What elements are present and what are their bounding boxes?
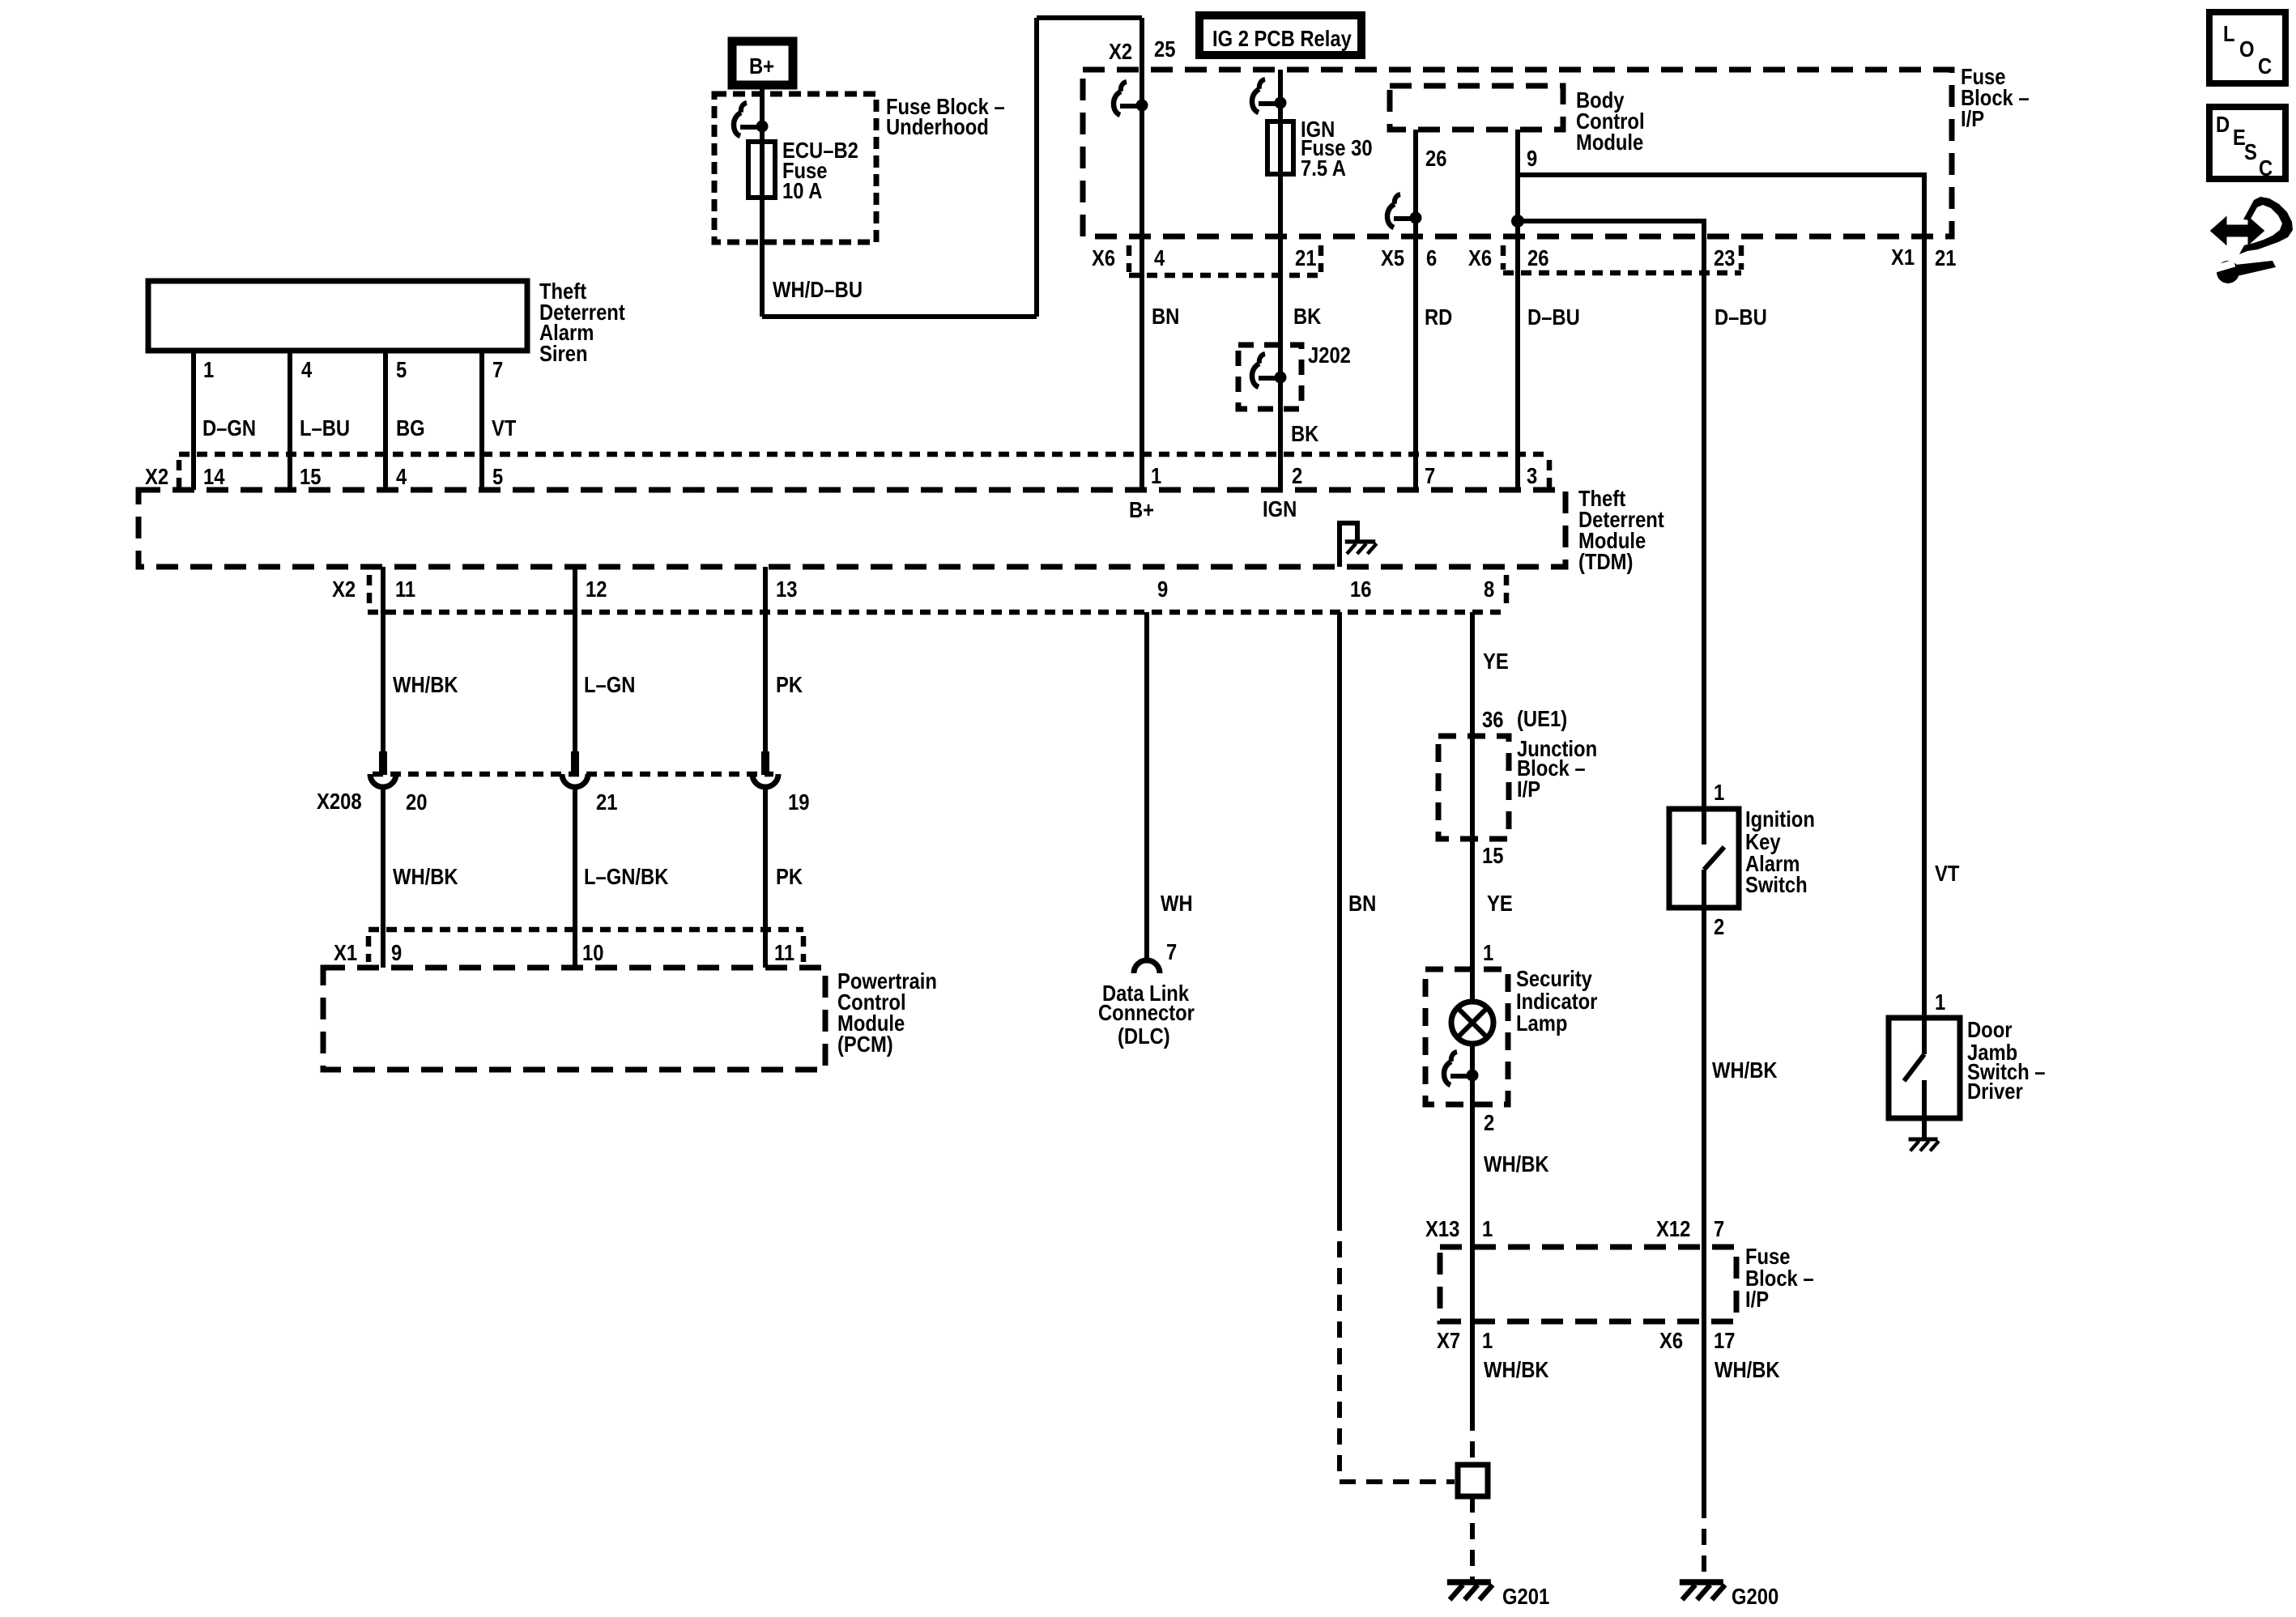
svg-text:(PCM): (PCM) bbox=[837, 1031, 893, 1057]
connector X2 dotted line on TDM bottom bbox=[368, 610, 1506, 615]
svg-text:X208: X208 bbox=[317, 788, 362, 814]
junction block I/P dashed box bbox=[1438, 736, 1509, 839]
svg-text:WH/BK: WH/BK bbox=[1484, 1356, 1549, 1382]
svg-text:L–GN/BK: L–GN/BK bbox=[584, 863, 669, 889]
svg-text:L–GN: L–GN bbox=[584, 671, 635, 697]
wire riser to top bbox=[1034, 18, 1039, 317]
wire switch to fuse block WH/BK bbox=[1702, 908, 1706, 1321]
svg-text:26: 26 bbox=[1425, 145, 1446, 171]
svg-text:12: 12 bbox=[586, 576, 607, 602]
wire D-BU down to TDM pin3 bbox=[1515, 221, 1520, 490]
svg-text:7: 7 bbox=[492, 356, 503, 382]
svg-text:VT: VT bbox=[492, 415, 517, 440]
lamp symbol circle with X bbox=[1451, 1002, 1493, 1044]
wire X208-19 to PCM bbox=[763, 787, 768, 968]
wire BN to TDM pin1 bbox=[1139, 236, 1144, 490]
powertrain control module PCM dashed box bbox=[323, 968, 825, 1070]
wire lamp to fuse block WH/BK bbox=[1470, 1104, 1475, 1321]
svg-text:X1: X1 bbox=[1891, 244, 1915, 270]
wire BCM pin26 down bbox=[1413, 130, 1418, 490]
svg-text:WH/BK: WH/BK bbox=[1715, 1356, 1780, 1382]
svg-text:5: 5 bbox=[396, 356, 407, 382]
siren wire pin7 bbox=[479, 351, 484, 490]
wire BN dashed to splice bbox=[1340, 1215, 1455, 1482]
svg-text:RD: RD bbox=[1425, 304, 1452, 330]
svg-text:D–GN: D–GN bbox=[202, 415, 256, 440]
svg-text:13: 13 bbox=[776, 576, 797, 602]
svg-text:1: 1 bbox=[203, 356, 214, 382]
wire TDM pin16 BN down bbox=[1337, 612, 1342, 1215]
svg-text:5: 5 bbox=[492, 463, 503, 489]
junction dot pin9 branch bbox=[1511, 215, 1524, 228]
svg-text:IG 2 PCB Relay: IG 2 PCB Relay bbox=[1212, 25, 1352, 51]
svg-text:G201: G201 bbox=[1502, 1583, 1549, 1609]
svg-text:15: 15 bbox=[1482, 842, 1503, 868]
fuse block I/P lower dashed box bbox=[1440, 1247, 1736, 1321]
svg-text:21: 21 bbox=[1295, 245, 1316, 270]
svg-text:(TDM): (TDM) bbox=[1578, 548, 1633, 574]
svg-text:G200: G200 bbox=[1732, 1583, 1778, 1609]
svg-text:BN: BN bbox=[1348, 890, 1376, 916]
wire below X7 solid bbox=[1470, 1321, 1475, 1415]
wire TDM pin8 YE down bbox=[1470, 612, 1475, 969]
svg-text:WH/D–BU: WH/D–BU bbox=[773, 276, 863, 302]
svg-text:11: 11 bbox=[395, 576, 415, 602]
svg-text:7.5 A: 7.5 A bbox=[1301, 155, 1346, 181]
svg-text:X2: X2 bbox=[332, 576, 356, 602]
svg-text:7: 7 bbox=[1166, 938, 1177, 964]
siren wire pin5 bbox=[383, 351, 388, 490]
wire X208-20 to PCM bbox=[381, 787, 386, 968]
svg-text:B+: B+ bbox=[749, 53, 774, 79]
connector X6 BCM ticks and line bbox=[1501, 245, 1506, 270]
svg-text:Underhood: Underhood bbox=[886, 113, 989, 139]
svg-text:X6: X6 bbox=[1659, 1327, 1683, 1353]
svg-text:PK: PK bbox=[776, 863, 803, 889]
svg-text:1: 1 bbox=[1482, 1215, 1493, 1241]
fuse IGN 30 bbox=[1267, 121, 1293, 174]
svg-text:Connector: Connector bbox=[1098, 999, 1195, 1025]
svg-text:15: 15 bbox=[300, 463, 321, 489]
svg-text:IGN: IGN bbox=[1263, 496, 1297, 521]
wire B+ feed vertical through fuse bbox=[760, 89, 765, 317]
svg-text:WH/BK: WH/BK bbox=[393, 671, 458, 697]
svg-text:YE: YE bbox=[1483, 648, 1509, 674]
svg-text:X1: X1 bbox=[334, 939, 357, 965]
svg-text:1: 1 bbox=[1483, 939, 1493, 965]
wire TDM pin12 L-GN bbox=[573, 567, 577, 752]
svg-text:B+: B+ bbox=[1129, 496, 1154, 522]
hook terminal on pin26 wire bbox=[1387, 194, 1422, 228]
svg-text:16: 16 bbox=[1350, 576, 1371, 602]
wire branch B to key alarm switch bbox=[1518, 221, 1704, 809]
body control module dashed box bbox=[1390, 86, 1563, 130]
hook terminal on IGN wire bbox=[1252, 79, 1287, 113]
svg-text:20: 20 bbox=[406, 789, 427, 815]
connector terminal hook in fuse block underhood bbox=[734, 103, 769, 136]
svg-text:1: 1 bbox=[1151, 462, 1161, 488]
svg-text:36: 36 bbox=[1482, 706, 1503, 732]
wire BK to TDM pin2 bbox=[1278, 236, 1283, 490]
connector X1 dotted line on PCM bbox=[368, 927, 803, 933]
svg-text:(UE1): (UE1) bbox=[1517, 705, 1567, 731]
svg-text:9: 9 bbox=[1157, 576, 1168, 602]
security indicator lamp dashed box bbox=[1425, 969, 1508, 1104]
svg-text:C: C bbox=[2259, 155, 2273, 181]
svg-text:X6: X6 bbox=[1468, 245, 1492, 270]
svg-text:X2: X2 bbox=[1109, 38, 1132, 64]
ignition key alarm switch box bbox=[1669, 809, 1739, 908]
svg-text:14: 14 bbox=[203, 463, 225, 489]
ground G201 bbox=[1447, 1582, 1493, 1600]
connector X208 dotted line bbox=[373, 772, 773, 777]
ground G200 bbox=[1680, 1582, 1725, 1600]
theft deterrent alarm siren box bbox=[148, 281, 527, 351]
svg-text:BK: BK bbox=[1291, 420, 1319, 446]
theft deterrent module TDM dashed box bbox=[138, 490, 1565, 567]
svg-text:WH/BK: WH/BK bbox=[393, 863, 458, 889]
svg-text:J202: J202 bbox=[1308, 342, 1351, 368]
svg-text:BG: BG bbox=[396, 415, 425, 440]
wire dashed splice to G201 bbox=[1470, 1496, 1475, 1582]
svg-text:21: 21 bbox=[596, 789, 617, 815]
siren wire pin1 bbox=[191, 351, 196, 490]
svg-text:25: 25 bbox=[1154, 36, 1175, 62]
fuse ECU-B2 bbox=[748, 142, 775, 198]
wire X208-21 to PCM bbox=[573, 787, 577, 968]
wire TDM pin13 PK bbox=[763, 567, 768, 752]
wire dashed to G200 bbox=[1702, 1321, 1706, 1502]
door jamb switch box bbox=[1889, 1018, 1960, 1118]
svg-text:1: 1 bbox=[1482, 1327, 1493, 1353]
connector X208 cup terminals bbox=[370, 751, 396, 787]
svg-text:VT: VT bbox=[1935, 860, 1960, 886]
svg-text:Module: Module bbox=[1576, 129, 1643, 155]
svg-text:PK: PK bbox=[776, 671, 803, 697]
svg-text:L–BU: L–BU bbox=[300, 415, 350, 440]
wire TDM pin9 WH to DLC bbox=[1144, 612, 1149, 960]
fuse block underhood dashed box bbox=[714, 94, 876, 242]
svg-text:9: 9 bbox=[391, 939, 402, 965]
svg-text:4: 4 bbox=[396, 463, 407, 489]
svg-text:23: 23 bbox=[1714, 245, 1735, 270]
svg-text:Siren: Siren bbox=[539, 340, 587, 366]
DESC box bbox=[2209, 107, 2285, 179]
splice J202 dashed box bbox=[1238, 345, 1301, 409]
wire WH/D-BU horizontal bottom bbox=[762, 314, 1037, 319]
svg-text:X5: X5 bbox=[1381, 245, 1404, 270]
svg-text:YE: YE bbox=[1487, 890, 1513, 916]
svg-text:X7: X7 bbox=[1437, 1327, 1460, 1353]
connector X6 ticks and line under relay bbox=[1127, 245, 1132, 272]
svg-text:10: 10 bbox=[582, 939, 603, 965]
svg-text:X2: X2 bbox=[145, 463, 168, 489]
svg-text:1: 1 bbox=[1714, 779, 1724, 805]
B+ power symbol box bbox=[732, 41, 793, 85]
svg-text:4: 4 bbox=[301, 356, 313, 382]
svg-text:BK: BK bbox=[1293, 303, 1322, 329]
wire to door switch ground bbox=[1922, 1118, 1927, 1139]
IG 2 PCB Relay label box bbox=[1199, 15, 1361, 55]
svg-text:WH: WH bbox=[1161, 890, 1193, 916]
svg-text:I/P: I/P bbox=[1745, 1286, 1769, 1312]
wire IGN fuse vertical bbox=[1278, 70, 1283, 236]
svg-text:WH/BK: WH/BK bbox=[1484, 1151, 1549, 1177]
wire TDM pin11 WH/BK bbox=[381, 567, 386, 752]
splice box bbox=[1458, 1465, 1488, 1496]
TDM internal ground for pin16 bbox=[1340, 523, 1357, 567]
svg-text:Switch: Switch bbox=[1745, 871, 1808, 897]
svg-text:S: S bbox=[2244, 138, 2257, 164]
lamp wire top bbox=[1470, 969, 1475, 1004]
hook terminal in lamp box bbox=[1444, 1052, 1479, 1085]
svg-text:21: 21 bbox=[1935, 245, 1956, 270]
svg-text:WH/BK: WH/BK bbox=[1712, 1057, 1778, 1083]
service icon arrows hand wrench bbox=[2212, 197, 2293, 283]
wire branch A to door jamb bbox=[1518, 175, 1924, 1018]
svg-text:6: 6 bbox=[1426, 245, 1437, 270]
connector X2 dotted line on TDM top bbox=[179, 452, 1549, 457]
svg-text:17: 17 bbox=[1714, 1327, 1735, 1353]
svg-text:X13: X13 bbox=[1425, 1215, 1459, 1241]
fuse block I/P outer dashed box with IG2 relay bbox=[1083, 70, 1952, 236]
svg-text:4: 4 bbox=[1154, 245, 1165, 270]
wire X2 pin25 stub bbox=[1139, 18, 1144, 70]
svg-text:8: 8 bbox=[1484, 576, 1494, 602]
hook terminal at J202 bbox=[1252, 354, 1287, 387]
svg-text:26: 26 bbox=[1527, 245, 1548, 270]
svg-text:L: L bbox=[2223, 20, 2235, 46]
svg-text:O: O bbox=[2239, 36, 2255, 62]
svg-text:C: C bbox=[2258, 53, 2272, 79]
svg-text:9: 9 bbox=[1527, 145, 1537, 171]
svg-text:2: 2 bbox=[1714, 913, 1724, 939]
svg-text:D: D bbox=[2216, 111, 2230, 137]
svg-text:3: 3 bbox=[1527, 462, 1537, 488]
svg-text:1: 1 bbox=[1935, 989, 1945, 1015]
ground door jamb bbox=[1909, 1139, 1939, 1151]
hook terminal on relay feed bbox=[1114, 82, 1148, 115]
svg-text:(DLC): (DLC) bbox=[1118, 1023, 1170, 1049]
svg-text:D–BU: D–BU bbox=[1715, 304, 1767, 330]
switch contacts and blade bbox=[1702, 809, 1706, 845]
svg-text:10 A: 10 A bbox=[782, 177, 823, 203]
svg-text:X12: X12 bbox=[1656, 1215, 1690, 1241]
wire dashed to splice bbox=[1470, 1415, 1475, 1465]
svg-text:7: 7 bbox=[1425, 462, 1435, 488]
svg-text:BN: BN bbox=[1152, 303, 1179, 329]
lamp wire bottom bbox=[1470, 1044, 1475, 1104]
svg-text:11: 11 bbox=[774, 939, 794, 965]
svg-text:I/P: I/P bbox=[1961, 105, 1984, 131]
svg-text:D–BU: D–BU bbox=[1527, 304, 1580, 330]
wire top horizontal bbox=[1037, 15, 1142, 20]
svg-text:Lamp: Lamp bbox=[1516, 1010, 1567, 1036]
svg-text:I/P: I/P bbox=[1517, 776, 1540, 802]
svg-text:2: 2 bbox=[1292, 462, 1302, 488]
DLC connector arc bbox=[1134, 960, 1160, 973]
siren wire pin4 bbox=[288, 351, 292, 490]
door switch contacts and blade bbox=[1922, 1018, 1927, 1054]
svg-text:7: 7 bbox=[1714, 1215, 1724, 1241]
wire BCM pin9 stub bbox=[1515, 130, 1520, 221]
svg-text:Driver: Driver bbox=[1967, 1078, 2023, 1104]
LOC box bbox=[2209, 12, 2285, 83]
svg-text:2: 2 bbox=[1484, 1109, 1494, 1135]
svg-text:X6: X6 bbox=[1092, 245, 1115, 270]
svg-text:19: 19 bbox=[788, 789, 809, 815]
wire relay coil feed bbox=[1139, 70, 1144, 236]
